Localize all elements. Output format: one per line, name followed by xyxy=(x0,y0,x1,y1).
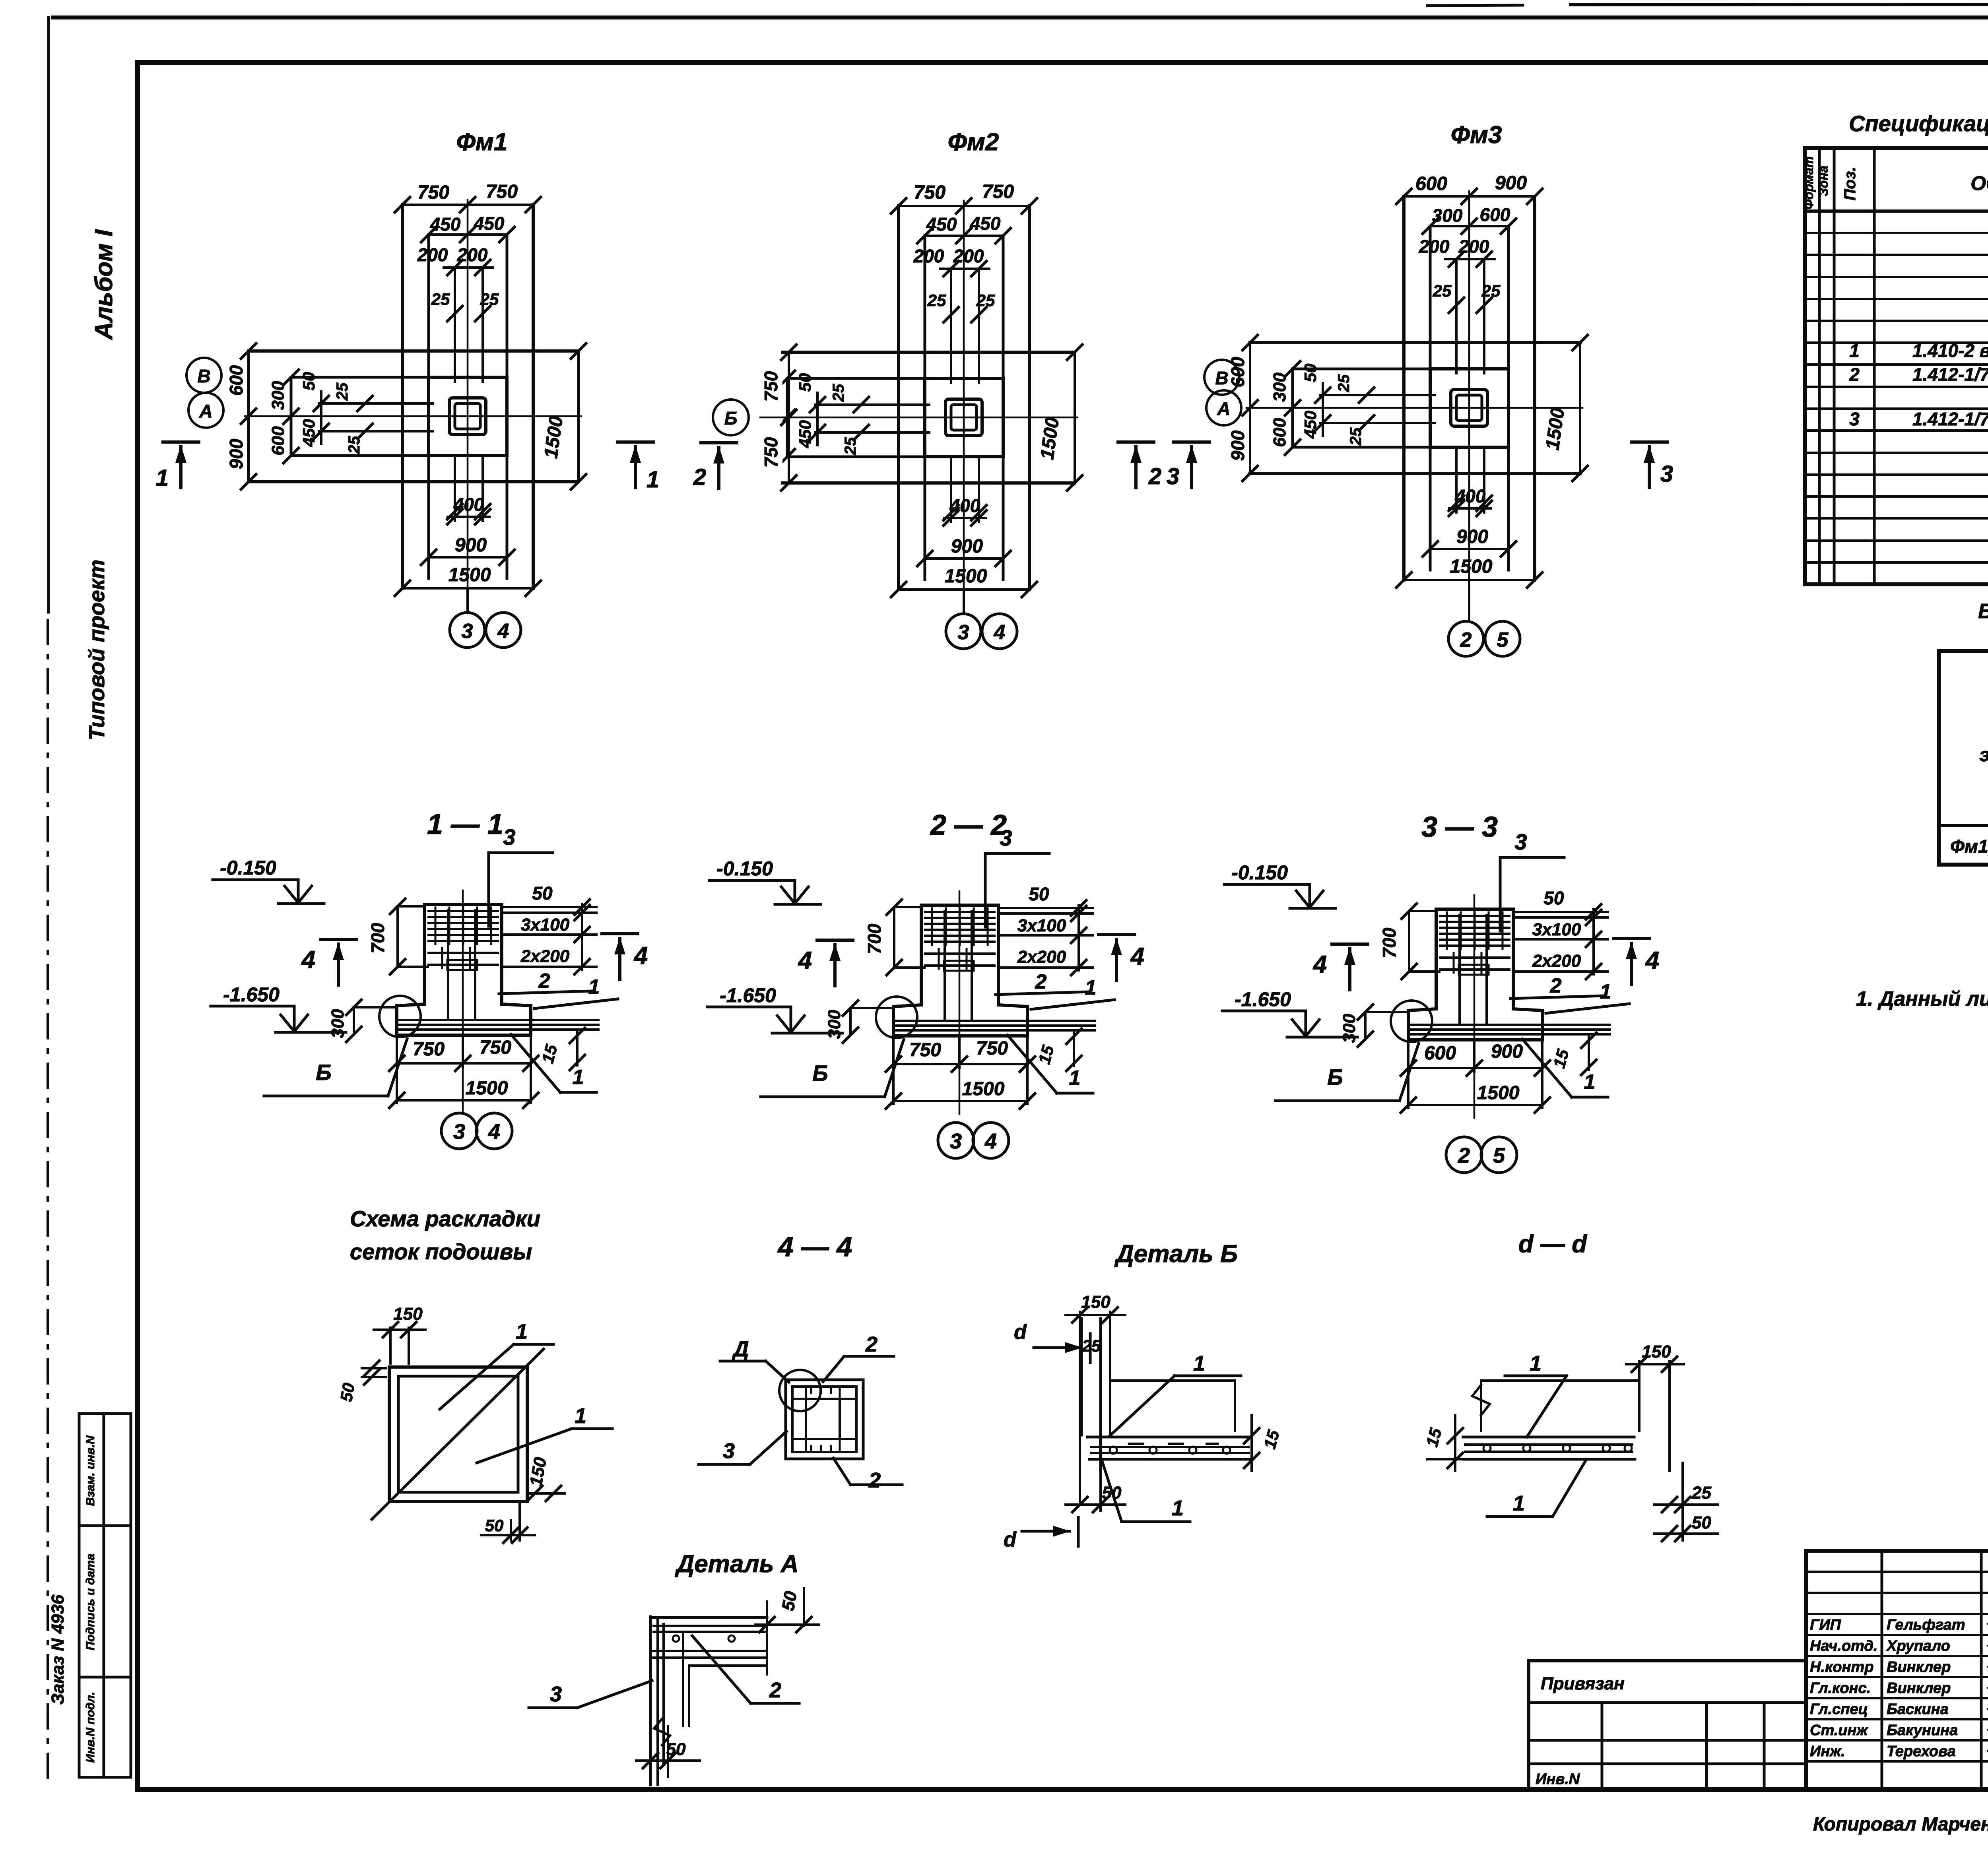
svg-text:Гл.спец: Гл.спец xyxy=(1810,1701,1868,1718)
plan Fm1 xyxy=(156,128,659,648)
svg-text:В: В xyxy=(197,366,210,386)
svg-text:600: 600 xyxy=(1424,1043,1456,1064)
svg-text:1.412-1/77 вып.3: 1.412-1/77 вып.3 xyxy=(1912,409,1988,429)
diagonal xyxy=(372,1349,544,1519)
svg-text:750: 750 xyxy=(413,1039,445,1060)
vertical strip xyxy=(649,1617,652,1785)
svg-text:600: 600 xyxy=(1415,173,1447,194)
mesh dots xyxy=(728,1635,735,1642)
svg-text:3 — 3: 3 — 3 xyxy=(1421,811,1498,843)
svg-text:25: 25 xyxy=(1082,1336,1101,1355)
svg-text:3: 3 xyxy=(550,1682,562,1706)
svg-text:3: 3 xyxy=(1660,461,1673,487)
svg-text:25: 25 xyxy=(1691,1483,1711,1503)
svg-text:Бакунина: Бакунина xyxy=(1887,1722,1958,1739)
svg-text:Альбом I: Альбом I xyxy=(90,229,118,341)
svg-text:Баскина: Баскина xyxy=(1887,1701,1949,1718)
plan Fm3 xyxy=(1204,121,1673,656)
svg-text:5: 5 xyxy=(1497,628,1509,652)
svg-text:750: 750 xyxy=(480,1037,511,1058)
svg-text:1. Данный лист смотреть с: 1. Данный лист смотреть совместно с лист… xyxy=(1856,987,1988,1010)
svg-text:Гл.конс.: Гл.конс. xyxy=(1810,1680,1871,1697)
inner L xyxy=(682,1632,684,1726)
svg-text:Д: Д xyxy=(732,1337,749,1361)
small stamp table bottom-left xyxy=(79,1414,131,1777)
svg-text:750: 750 xyxy=(982,181,1014,202)
svg-text:Деталь Б: Деталь Б xyxy=(1114,1240,1238,1268)
svg-text:2: 2 xyxy=(868,1468,881,1492)
svg-text:4: 4 xyxy=(994,621,1006,644)
top ext xyxy=(1481,1379,1639,1382)
vertical ext line xyxy=(1079,1336,1081,1503)
svg-text:50: 50 xyxy=(485,1516,504,1535)
svg-text:1: 1 xyxy=(156,465,169,491)
svg-text:300: 300 xyxy=(1432,205,1463,226)
svg-text:Спецификация фундаментов: Спецификация фундаментов Фм1, Фм2, Фм3. xyxy=(1849,111,1988,136)
svg-text:900: 900 xyxy=(1495,173,1527,194)
svg-text:Фм1, Фм2, Фм3: Фм1, Фм2, Фм3 xyxy=(1950,836,1988,857)
svg-text:50: 50 xyxy=(337,1381,358,1403)
svg-text:Инж.: Инж. xyxy=(1810,1743,1845,1760)
slab xyxy=(1087,1436,1250,1439)
svg-text:750: 750 xyxy=(914,182,945,203)
svg-text:4: 4 xyxy=(984,1129,997,1153)
svg-text:Б: Б xyxy=(724,408,738,429)
svg-text:4: 4 xyxy=(497,620,509,643)
svg-text:d — d: d — d xyxy=(1518,1230,1587,1258)
svg-text:Фм1: Фм1 xyxy=(456,128,508,156)
svg-text:450: 450 xyxy=(926,214,957,235)
svg-text:1: 1 xyxy=(1530,1352,1541,1375)
svg-text:450: 450 xyxy=(970,213,1001,234)
svg-text:Фм2: Фм2 xyxy=(948,128,999,156)
svg-text:2: 2 xyxy=(1148,463,1161,489)
svg-text:Схема раскладки: Схема раскладки xyxy=(350,1206,540,1231)
svg-text:Обозначение: Обозначение xyxy=(1971,172,1988,194)
svg-text:Гельфгат: Гельфгат xyxy=(1887,1617,1965,1633)
svg-text:Ведомость расхода ста: Ведомость расхода стали на элемент, кг xyxy=(1978,600,1988,623)
svg-text:3: 3 xyxy=(950,1129,962,1153)
svg-text:3: 3 xyxy=(1167,463,1179,489)
svg-text:750: 750 xyxy=(976,1038,1008,1059)
svg-text:3: 3 xyxy=(1849,409,1860,429)
svg-text:Привязан: Привязан xyxy=(1541,1674,1625,1693)
privyazan box xyxy=(1529,1661,1806,1790)
svg-text:2: 2 xyxy=(1849,364,1860,385)
svg-text:d: d xyxy=(1004,1528,1017,1551)
svg-text:А: А xyxy=(1217,398,1230,419)
leader 1 upper xyxy=(440,1344,514,1409)
svg-text:Ст.инж: Ст.инж xyxy=(1810,1722,1868,1739)
svg-text:1.412-1/77 вып.3: 1.412-1/77 вып.3 xyxy=(1912,364,1988,385)
svg-text:Подпись и дата: Подпись и дата xyxy=(84,1553,97,1650)
leader 1 lower xyxy=(477,1429,572,1463)
svg-text:Формат: Формат xyxy=(1802,156,1816,209)
outer top border line xyxy=(53,16,1988,19)
svg-text:1.410-2 вып.1: 1.410-2 вып.1 xyxy=(1912,340,1988,361)
svg-text:2 — 2: 2 — 2 xyxy=(930,809,1007,841)
svg-text:900: 900 xyxy=(1491,1041,1523,1062)
svg-text:50: 50 xyxy=(778,1590,801,1612)
svg-text:4: 4 xyxy=(488,1120,500,1144)
section cut marks 1 xyxy=(163,442,199,488)
svg-text:5: 5 xyxy=(1493,1144,1505,1167)
svg-text:3: 3 xyxy=(453,1120,465,1144)
svg-text:1: 1 xyxy=(646,467,659,493)
svg-text:750: 750 xyxy=(486,181,518,202)
svg-text:2: 2 xyxy=(769,1678,781,1702)
axis circles xyxy=(186,358,221,393)
svg-text:600: 600 xyxy=(1480,204,1510,225)
svg-text:1: 1 xyxy=(1172,1496,1184,1520)
bottom axis circles xyxy=(466,588,469,613)
svg-text:элемента: элемента xyxy=(1980,745,1988,766)
horizontal strip xyxy=(650,1616,767,1619)
svg-text:Хрупало: Хрупало xyxy=(1886,1638,1950,1654)
svg-text:2: 2 xyxy=(1458,1144,1470,1167)
svg-text:ГИП: ГИП xyxy=(1810,1617,1841,1633)
svg-text:Терехова: Терехова xyxy=(1887,1743,1956,1760)
vertical member xyxy=(1099,1319,1102,1471)
svg-text:750: 750 xyxy=(761,437,781,467)
svg-text:сеток подошвы: сеток подошвы xyxy=(350,1239,532,1264)
svg-text:750: 750 xyxy=(761,371,781,401)
svg-text:750: 750 xyxy=(417,182,449,203)
svg-text:Н.контр: Н.контр xyxy=(1810,1659,1873,1676)
svg-text:Винклер: Винклер xyxy=(1887,1680,1951,1697)
svg-text:1: 1 xyxy=(575,1404,586,1428)
svg-text:Фм3: Фм3 xyxy=(1451,121,1502,149)
svg-text:Зона: Зона xyxy=(1816,165,1831,196)
svg-text:В: В xyxy=(1215,368,1228,388)
svg-text:Взам. инв.N: Взам. инв.N xyxy=(84,1435,97,1506)
svg-text:2: 2 xyxy=(865,1332,878,1356)
svg-text:1: 1 xyxy=(1513,1491,1525,1515)
svg-text:Заказ N 4936: Заказ N 4936 xyxy=(48,1594,68,1705)
top ext line of slab xyxy=(1110,1379,1235,1382)
svg-text:4 — 4: 4 — 4 xyxy=(777,1231,852,1262)
svg-text:Винклер: Винклер xyxy=(1887,1659,1951,1676)
svg-text:3: 3 xyxy=(723,1439,735,1463)
svg-text:Инв.N подл.: Инв.N подл. xyxy=(84,1692,97,1763)
svg-text:2: 2 xyxy=(1460,628,1472,652)
plan Fm2 xyxy=(681,128,1209,649)
svg-text:1: 1 xyxy=(1849,340,1860,361)
svg-text:50: 50 xyxy=(1692,1513,1711,1532)
svg-text:750: 750 xyxy=(909,1039,941,1061)
svg-text:Нач.отд.: Нач.отд. xyxy=(1810,1638,1877,1654)
svg-text:1 — 1: 1 — 1 xyxy=(427,809,503,840)
svg-text:Копировал Марченко: Копировал Марченко xyxy=(1813,1814,1988,1835)
svg-text:Деталь А: Деталь А xyxy=(674,1550,798,1578)
svg-text:Типовой проект: Типовой проект xyxy=(84,560,109,741)
svg-text:1: 1 xyxy=(1193,1352,1205,1375)
svg-text:2: 2 xyxy=(693,464,706,490)
svg-text:d: d xyxy=(1014,1321,1027,1344)
outer square xyxy=(389,1367,527,1501)
svg-text:3: 3 xyxy=(958,621,969,644)
svg-text:Инв.N: Инв.N xyxy=(1536,1771,1580,1788)
outer left dash-dot border xyxy=(47,17,50,612)
slab xyxy=(1463,1436,1634,1439)
inner frame xyxy=(138,60,1988,65)
svg-text:А: А xyxy=(199,401,212,421)
svg-text:450: 450 xyxy=(430,214,461,235)
svg-text:3: 3 xyxy=(462,620,473,643)
svg-text:Поз.: Поз. xyxy=(1841,167,1859,201)
svg-text:1: 1 xyxy=(516,1320,528,1344)
svg-text:450: 450 xyxy=(474,213,505,234)
